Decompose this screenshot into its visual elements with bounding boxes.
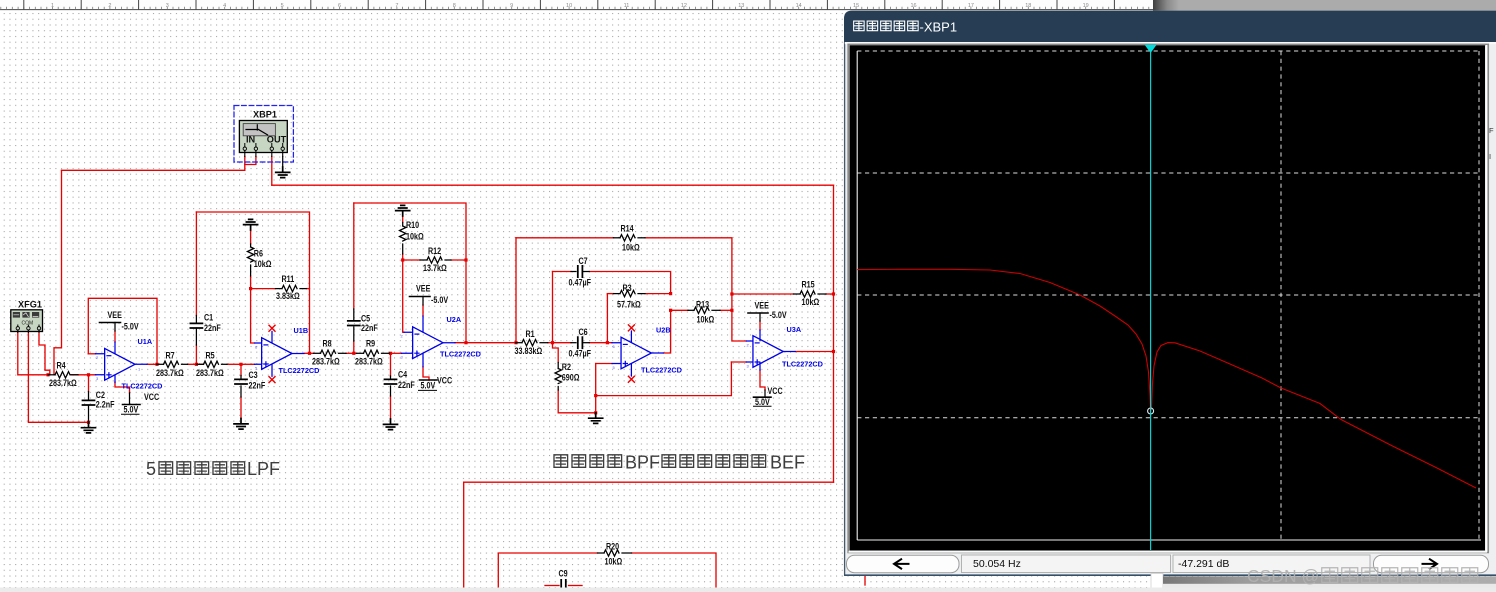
svg-text:VEE: VEE [755, 301, 770, 311]
wire R20 row right riser [632, 553, 717, 588]
wire U1A feedback box [88, 298, 157, 364]
wire long horizontal XBP to left column [62, 169, 245, 171]
node R12 left [401, 258, 404, 261]
svg-text:U1B: U1B [294, 326, 309, 335]
svg-text:10: 10 [566, 3, 572, 9]
plot sunken frame [848, 44, 1488, 552]
wire C5 node to R9 [354, 352, 357, 354]
svg-text:8: 8 [453, 3, 456, 9]
svg-text:3: 3 [166, 3, 169, 9]
svg-text:690Ω: 690Ω [562, 373, 580, 383]
no-connect X above U2B [628, 325, 634, 331]
window title bar [844, 11, 1496, 42]
wire R13 row right [720, 309, 732, 311]
wire XFG pin3 jog down [39, 333, 50, 375]
svg-text:BEF: BEF [770, 453, 805, 473]
svg-text:9: 9 [510, 3, 513, 9]
svg-text:U1A: U1A [138, 337, 153, 346]
ground below C4 [384, 419, 398, 430]
capacitor C9 [559, 569, 569, 592]
wire C9 right stub [569, 585, 583, 587]
wires: red net [18, 157, 865, 589]
svg-text:TLC2272CD: TLC2272CD [279, 366, 320, 375]
svg-text:0.47µF: 0.47µF [569, 349, 591, 359]
wire C6 row left [553, 342, 572, 344]
resistor R6 [247, 244, 271, 276]
svg-text:-47.291 dB: -47.291 dB [1178, 558, 1229, 570]
svg-text:R15: R15 [802, 280, 816, 290]
wire C7 row right [589, 272, 670, 294]
svg-text:57.7kΩ: 57.7kΩ [617, 300, 641, 310]
capacitor C7 [569, 256, 591, 288]
caption multiple-feedback BPF + subtractor BEF [554, 453, 805, 473]
wire R7 to C1 node [188, 363, 197, 365]
svg-text:R14: R14 [621, 224, 635, 234]
resistor R3 [614, 283, 646, 309]
svg-text:R13: R13 [696, 300, 710, 310]
U1A VEE supply [100, 310, 140, 331]
wire C3 bottom to ground [240, 397, 242, 419]
svg-text:TLC2272CD: TLC2272CD [641, 366, 682, 375]
svg-text:XBP1: XBP1 [253, 110, 277, 120]
resistor R9 [355, 339, 390, 367]
svg-text:-5.0V: -5.0V [770, 310, 788, 320]
resistor R4 [48, 361, 78, 388]
ground below C2 [82, 422, 96, 433]
svg-text:I: I [1489, 152, 1491, 161]
wire node A column [552, 272, 554, 343]
svg-text:XFG1: XFG1 [18, 300, 42, 310]
wire R10 bottom to R12 row [402, 254, 404, 260]
svg-text:22nF: 22nF [361, 323, 378, 333]
svg-text:18: 18 [1025, 3, 1031, 9]
svg-text:12: 12 [681, 3, 687, 9]
wire OUT+ long horizontal to output column [272, 184, 834, 186]
svg-text:13: 13 [738, 3, 744, 9]
wire R4 to U1A plus node [71, 374, 96, 376]
wire U1A output to R7 [147, 363, 157, 365]
svg-text:0.47µF: 0.47µF [569, 278, 591, 288]
bode magnitude trace [857, 269, 1476, 488]
graticule solid bottom axis [857, 539, 1481, 541]
instrument XBP1 [234, 106, 293, 163]
svg-text:VCC: VCC [768, 386, 783, 396]
node R15 left [730, 292, 733, 295]
resistor R15 [794, 280, 827, 307]
wire XFG pin1 to R4 row [18, 333, 48, 375]
svg-text:11: 11 [624, 3, 630, 9]
wire C2 top branch [88, 375, 90, 392]
wire R11 node down to U1B minus [251, 289, 255, 343]
svg-text:2.2nF: 2.2nF [96, 400, 115, 410]
capacitor C3 [235, 370, 265, 397]
svg-text:C1: C1 [204, 313, 214, 323]
node U2A out box [464, 341, 467, 344]
node link row [594, 394, 597, 397]
resistor R20 [598, 542, 632, 567]
svg-text:R6: R6 [254, 249, 264, 259]
no-connect X above U1B [269, 325, 275, 331]
node R3 right [669, 292, 672, 295]
node R12 right box [464, 258, 467, 261]
svg-text:10kΩ: 10kΩ [254, 259, 272, 269]
wire U1A minus stub red [88, 353, 95, 355]
graticule solid left axis [856, 51, 858, 540]
wire U2B out to feedback column [663, 310, 670, 353]
svg-text:22nF: 22nF [204, 323, 221, 333]
wire subtractor minus column [732, 294, 746, 341]
wire R3 row left [607, 293, 613, 295]
svg-text:U3A: U3A [787, 325, 802, 334]
svg-text:-5.0V: -5.0V [431, 295, 449, 305]
node C2 top [87, 373, 90, 376]
node C3 top [239, 363, 242, 366]
wire R12 right to box edge [451, 259, 466, 261]
wire R2 jog from node A [553, 343, 559, 363]
wire U3A VCC jog [760, 370, 765, 390]
wire R13 row left [671, 309, 688, 311]
U3A VCC supply [754, 386, 783, 407]
svg-text:5.0V: 5.0V [421, 381, 436, 391]
svg-text:R4: R4 [57, 361, 67, 371]
node C5 bottom [352, 352, 355, 355]
node R13 left [669, 309, 672, 312]
svg-text:7: 7 [395, 3, 398, 9]
svg-text:R3: R3 [623, 283, 633, 293]
wire ground above R10 stub [402, 216, 404, 223]
svg-text:R1: R1 [526, 329, 536, 339]
scrollbar strip bottom right [1163, 576, 1496, 584]
svg-text:R11: R11 [282, 274, 295, 284]
node R4 input [46, 373, 49, 376]
wire U3A VEE drop [759, 321, 761, 330]
wire C1 bottom to R5 node [195, 345, 197, 364]
wire C9 left stub [545, 585, 559, 587]
node ground U2B [594, 411, 597, 414]
op-amp U1A [96, 337, 163, 391]
white gap below title [845, 42, 1496, 44]
svg-text:U2A: U2A [447, 315, 462, 324]
svg-text:10kΩ: 10kΩ [802, 297, 820, 307]
svg-text:R7: R7 [166, 351, 176, 361]
node U2B minus [606, 341, 609, 344]
svg-text:1: 1 [51, 3, 54, 9]
wire ground above R6 stub [250, 230, 252, 244]
wire U3A output [795, 351, 833, 353]
wire bottom loop left drop [463, 482, 465, 588]
wire C5 column (U2A box left edge) [353, 203, 355, 309]
svg-text:13.7kΩ: 13.7kΩ [423, 263, 447, 273]
svg-text:R10: R10 [406, 220, 420, 230]
U3A VEE supply [748, 301, 787, 321]
resistor R11 [276, 274, 307, 301]
wire C6 row right to minus riser [589, 342, 607, 344]
white box under window [1151, 574, 1163, 591]
wire R6 bottom to R11 row [250, 276, 252, 289]
svg-text:3.83kΩ: 3.83kΩ [276, 291, 300, 301]
wire R2 bottom to ground row [558, 390, 596, 413]
svg-text:C2: C2 [96, 390, 106, 400]
svg-text:6: 6 [338, 3, 341, 9]
wire R14 row left [516, 237, 614, 239]
wire left column down to R4 node [54, 170, 62, 374]
node U1B out [308, 352, 311, 355]
resistor R13 [688, 300, 720, 325]
wire U1A VCC jog [115, 382, 130, 393]
cursor marker circle [1148, 408, 1154, 414]
instrument XFG1 [11, 300, 43, 333]
resistor R1 [515, 329, 548, 356]
cursor top triangle [1145, 45, 1157, 53]
wire R8 to C5 node [346, 352, 357, 354]
svg-text:10kΩ: 10kΩ [406, 232, 424, 242]
wire U2A out to R14 riser node [455, 342, 516, 344]
wire U2B plus stub red [596, 363, 612, 365]
wire R11 row left [251, 288, 276, 290]
resistor R14 [614, 224, 646, 253]
wire XFG pin2 to ground row [28, 333, 88, 423]
svg-text:14: 14 [796, 3, 802, 9]
wire C3 node to U1B plus stub [241, 363, 255, 365]
svg-text:-5.0V: -5.0V [122, 322, 140, 332]
wire R4 node to R4 lead [47, 374, 49, 376]
bottom control bar [847, 555, 1489, 573]
svg-text:283.7kΩ: 283.7kΩ [156, 368, 184, 378]
svg-text:U2B: U2B [656, 325, 671, 334]
svg-text:33.83kΩ: 33.83kΩ [515, 346, 543, 356]
svg-text:TLC2272CD: TLC2272CD [122, 382, 163, 391]
svg-text:R9: R9 [366, 339, 376, 349]
node C1 bottom [195, 363, 198, 366]
svg-text:16: 16 [910, 3, 916, 9]
wire R20 row left riser [498, 553, 597, 588]
ground above R10 [396, 205, 410, 216]
wire node to R5 [196, 363, 203, 365]
node R13 right [730, 309, 733, 312]
op-amp U2B [612, 325, 682, 376]
wire U2A VEE drop [422, 305, 424, 316]
wire C7 row left [553, 271, 572, 273]
svg-text:5: 5 [146, 459, 156, 479]
wire U1A VEE drop [114, 331, 116, 342]
svg-text:C4: C4 [398, 370, 408, 380]
node U1A out feedback [155, 363, 158, 366]
wire R9 to C4 node and U2A plus [390, 352, 402, 354]
svg-text:TLC2272CD: TLC2272CD [440, 350, 481, 359]
wire U2A VCC jog [423, 367, 429, 380]
svg-text:C3: C3 [249, 370, 259, 380]
wire subtractor link row [596, 362, 732, 396]
svg-text:R8: R8 [323, 339, 333, 349]
no-connect X below U2B [628, 376, 634, 382]
svg-text:5.0V: 5.0V [755, 397, 770, 407]
node U3A out [832, 350, 835, 353]
graticule dashed lines [857, 51, 1481, 540]
wire node to R1 [515, 342, 518, 344]
window body [844, 11, 1496, 575]
wire R12 node down to U2A minus [403, 260, 404, 332]
svg-text:4: 4 [223, 3, 226, 9]
resistor R2 [555, 362, 580, 390]
svg-text:10kΩ: 10kΩ [622, 243, 640, 253]
svg-text:5.0V: 5.0V [124, 405, 139, 415]
capacitor C6 [569, 327, 591, 359]
svg-text:VCC: VCC [144, 392, 159, 402]
watermark CSDN [1247, 566, 1478, 586]
top-right gray strip [1153, 0, 1496, 11]
wire R12 row left [403, 259, 420, 261]
wire XBP1 OUT+ drop [271, 157, 273, 186]
wire XBP1 IN+ drop [244, 157, 246, 171]
wire U2B plus column [595, 364, 597, 413]
bottom page strip [0, 588, 1496, 592]
U2A VEE supply [410, 284, 449, 305]
resistor R8 [312, 339, 346, 367]
ground below XBP1 OUT- [276, 157, 290, 178]
svg-text:10kΩ: 10kΩ [697, 315, 715, 325]
wire output column [833, 185, 835, 482]
window bottom border line [844, 574, 1496, 576]
ground below R2 node [589, 413, 603, 424]
wire R3 row right [645, 293, 671, 295]
svg-text:R2: R2 [562, 362, 572, 372]
ground above R6 [244, 219, 258, 230]
svg-text:VCC: VCC [437, 376, 452, 386]
wire stub under bode window [864, 576, 866, 586]
wire U3A plus stub red [731, 361, 746, 363]
resistor R5 [196, 351, 227, 378]
svg-text:15: 15 [853, 3, 859, 9]
title text [854, 20, 957, 35]
wire U1B out to R8 [304, 352, 314, 354]
op-amp U1B [255, 326, 320, 377]
svg-text:19: 19 [1083, 3, 1089, 9]
svg-text:F: F [1489, 126, 1494, 135]
svg-text:283.7kΩ: 283.7kΩ [196, 368, 224, 378]
svg-text:R5: R5 [206, 351, 216, 361]
wire bottom loop horizontal [464, 481, 834, 483]
junction dots [46, 258, 835, 424]
svg-text:CSDN @: CSDN @ [1247, 566, 1319, 586]
top ruler bar [0, 0, 1153, 10]
svg-text:TLC2272CD: TLC2272CD [782, 359, 823, 368]
wire R5 to C3 node [227, 363, 241, 365]
wire R14 row right to subtractor column [645, 238, 732, 294]
svg-text:C7: C7 [579, 256, 589, 266]
svg-text:R20: R20 [606, 542, 620, 552]
resistor R12 [420, 246, 451, 273]
svg-text:C9: C9 [559, 569, 569, 579]
capacitor C1 [190, 313, 220, 345]
wire R15 row right to output column [826, 293, 834, 295]
node A [551, 341, 554, 344]
svg-text:-XBP1: -XBP1 [920, 20, 958, 35]
svg-text:283.7kΩ: 283.7kΩ [312, 357, 340, 367]
wire R15 row left [732, 293, 794, 295]
plot black area [850, 45, 1486, 550]
ground below C3 [234, 419, 248, 430]
capacitor C2 [83, 390, 115, 421]
wire C5 bottom to R8/R9 node [353, 341, 355, 353]
svg-text:283.7kΩ: 283.7kΩ [355, 357, 383, 367]
node R15 right [832, 292, 835, 295]
window left border line [844, 42, 846, 575]
capacitor C4 [385, 370, 415, 396]
node C4 top [389, 352, 392, 355]
wire R3 riser down to U2B minus [607, 294, 612, 343]
wire U2A box top edge [354, 203, 466, 343]
wire C3 branch down [240, 364, 242, 375]
wire XBP1 IN- jog [245, 157, 256, 165]
svg-text:10kΩ: 10kΩ [605, 557, 623, 567]
svg-text:50.054 Hz: 50.054 Hz [973, 558, 1021, 570]
svg-text:17: 17 [968, 3, 974, 9]
svg-text:BPF: BPF [625, 453, 660, 473]
caption 5th-order butterworth LPF [146, 459, 280, 479]
wire C4 bottom long drop [390, 396, 392, 419]
svg-text:22nF: 22nF [249, 381, 266, 391]
svg-text:2: 2 [108, 3, 111, 9]
cursor vertical line [1150, 45, 1152, 550]
svg-text:OUT: OUT [267, 134, 287, 144]
svg-text:R12: R12 [428, 246, 442, 256]
svg-text:IN: IN [246, 134, 256, 144]
no-connect X below U1B [269, 377, 275, 383]
node R11 left [249, 287, 252, 290]
svg-text:LPF: LPF [247, 459, 280, 479]
wire U1B box top edge [196, 212, 309, 353]
wire R11 right to box edge [307, 288, 310, 290]
wire C2 bottom to ground row [88, 421, 90, 422]
svg-text:283.7kΩ: 283.7kΩ [49, 378, 77, 388]
wire C4 branch down [390, 353, 392, 376]
svg-text:VEE: VEE [108, 310, 123, 320]
svg-text:C6: C6 [579, 327, 589, 337]
node C2 ground [87, 421, 90, 424]
wire R14 riser [515, 238, 517, 343]
wire R1 to node A [548, 342, 553, 344]
svg-text:COM: COM [22, 320, 34, 326]
resistor R7 [156, 351, 188, 378]
op-amp U2A [401, 315, 481, 367]
svg-text:VEE: VEE [416, 284, 431, 294]
svg-text:22nF: 22nF [398, 380, 415, 390]
op-amp U3A [746, 325, 823, 370]
U2A VCC supply [419, 376, 453, 391]
svg-text:5: 5 [281, 3, 284, 9]
wire C1 column upper (U1B box left edge) [195, 212, 197, 316]
capacitor C5 [348, 309, 378, 341]
resistor R10 [400, 220, 425, 254]
U1A VCC supply [122, 392, 160, 415]
node R14 riser [514, 341, 517, 344]
